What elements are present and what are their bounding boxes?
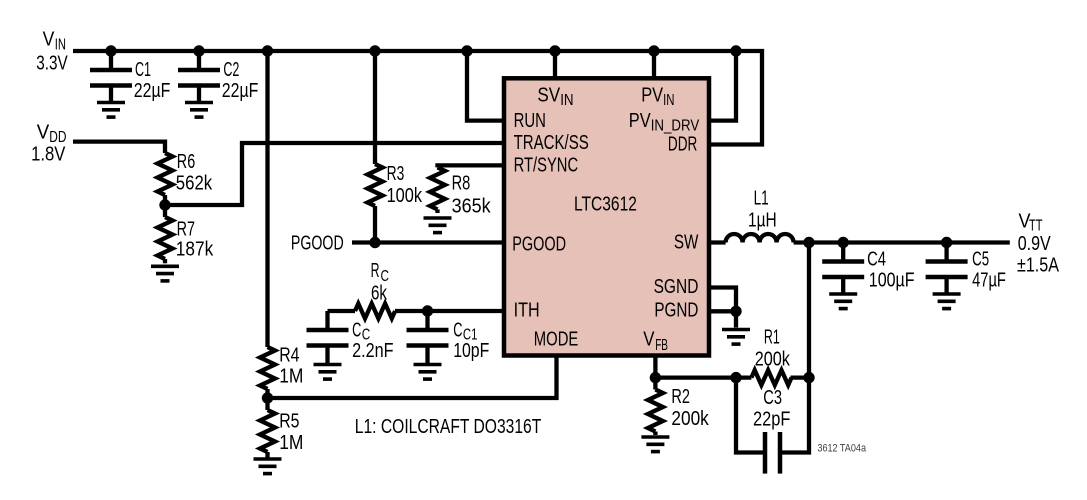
svg-text:R7: R7 <box>177 218 195 240</box>
svg-text:0.9V: 0.9V <box>1018 233 1052 255</box>
svg-text:L1: L1 <box>754 188 769 210</box>
svg-text:PV: PV <box>629 110 651 132</box>
svg-text:RUN: RUN <box>514 110 546 132</box>
svg-text:22µF: 22µF <box>222 80 259 102</box>
svg-text:1.8V: 1.8V <box>31 144 66 166</box>
svg-text:C: C <box>453 320 462 342</box>
svg-text:IN: IN <box>663 92 674 109</box>
svg-text:SW: SW <box>674 232 699 254</box>
svg-text:1M: 1M <box>279 432 303 454</box>
svg-text:C5: C5 <box>972 248 989 270</box>
svg-text:R6: R6 <box>177 151 195 173</box>
svg-text:PGND: PGND <box>654 300 698 322</box>
svg-text:100k: 100k <box>387 185 423 207</box>
svg-text:10pF: 10pF <box>453 340 489 362</box>
svg-text:100µF: 100µF <box>869 269 915 291</box>
svg-text:R3: R3 <box>387 163 405 185</box>
svg-text:PGOOD: PGOOD <box>291 233 344 255</box>
svg-text:PV: PV <box>641 84 663 106</box>
svg-text:C2: C2 <box>223 59 239 81</box>
svg-text:C4: C4 <box>867 248 886 270</box>
svg-text:SV: SV <box>537 84 560 106</box>
svg-text:V: V <box>43 29 55 51</box>
svg-text:22pF: 22pF <box>753 409 790 431</box>
svg-text:1M: 1M <box>279 365 303 387</box>
svg-text:R: R <box>371 260 380 282</box>
svg-text:1µH: 1µH <box>748 209 777 231</box>
svg-text:TRACK/SS: TRACK/SS <box>514 132 589 154</box>
svg-text:LTC3612: LTC3612 <box>574 193 637 216</box>
svg-text:187k: 187k <box>176 239 214 261</box>
svg-text:R2: R2 <box>671 386 690 408</box>
svg-text:6k: 6k <box>371 282 388 304</box>
svg-text:V: V <box>643 328 655 350</box>
svg-text:IN_DRV: IN_DRV <box>651 118 700 135</box>
svg-text:R5: R5 <box>279 411 299 433</box>
svg-text:3.3V: 3.3V <box>36 52 68 74</box>
svg-text:R8: R8 <box>452 172 471 194</box>
svg-text:ITH: ITH <box>514 300 540 322</box>
svg-text:200k: 200k <box>671 408 709 430</box>
svg-text:MODE: MODE <box>534 329 579 351</box>
svg-text:47µF: 47µF <box>972 269 1006 291</box>
svg-text:V: V <box>37 122 50 144</box>
svg-text:SGND: SGND <box>654 276 699 298</box>
svg-text:R4: R4 <box>279 345 299 367</box>
svg-text:C: C <box>352 320 361 342</box>
svg-text:RT/SYNC: RT/SYNC <box>514 155 579 177</box>
svg-text:IN: IN <box>55 36 66 53</box>
svg-text:3612 TA04a: 3612 TA04a <box>817 443 866 455</box>
svg-text:L1: COILCRAFT DO3316T: L1: COILCRAFT DO3316T <box>355 416 542 438</box>
svg-text:22µF: 22µF <box>134 80 171 102</box>
svg-text:2.2nF: 2.2nF <box>352 340 394 362</box>
svg-text:365k: 365k <box>452 195 492 217</box>
svg-text:C1: C1 <box>135 59 151 81</box>
svg-text:IN: IN <box>560 92 573 109</box>
svg-text:TT: TT <box>1029 218 1043 235</box>
svg-text:PGOOD: PGOOD <box>512 233 566 255</box>
svg-text:DDR: DDR <box>668 134 697 156</box>
svg-text:±1.5A: ±1.5A <box>1017 255 1060 277</box>
svg-text:200k: 200k <box>755 349 791 371</box>
svg-text:R1: R1 <box>764 326 780 348</box>
svg-text:562k: 562k <box>176 173 213 195</box>
svg-text:FB: FB <box>655 337 668 354</box>
svg-text:C3: C3 <box>763 387 782 409</box>
